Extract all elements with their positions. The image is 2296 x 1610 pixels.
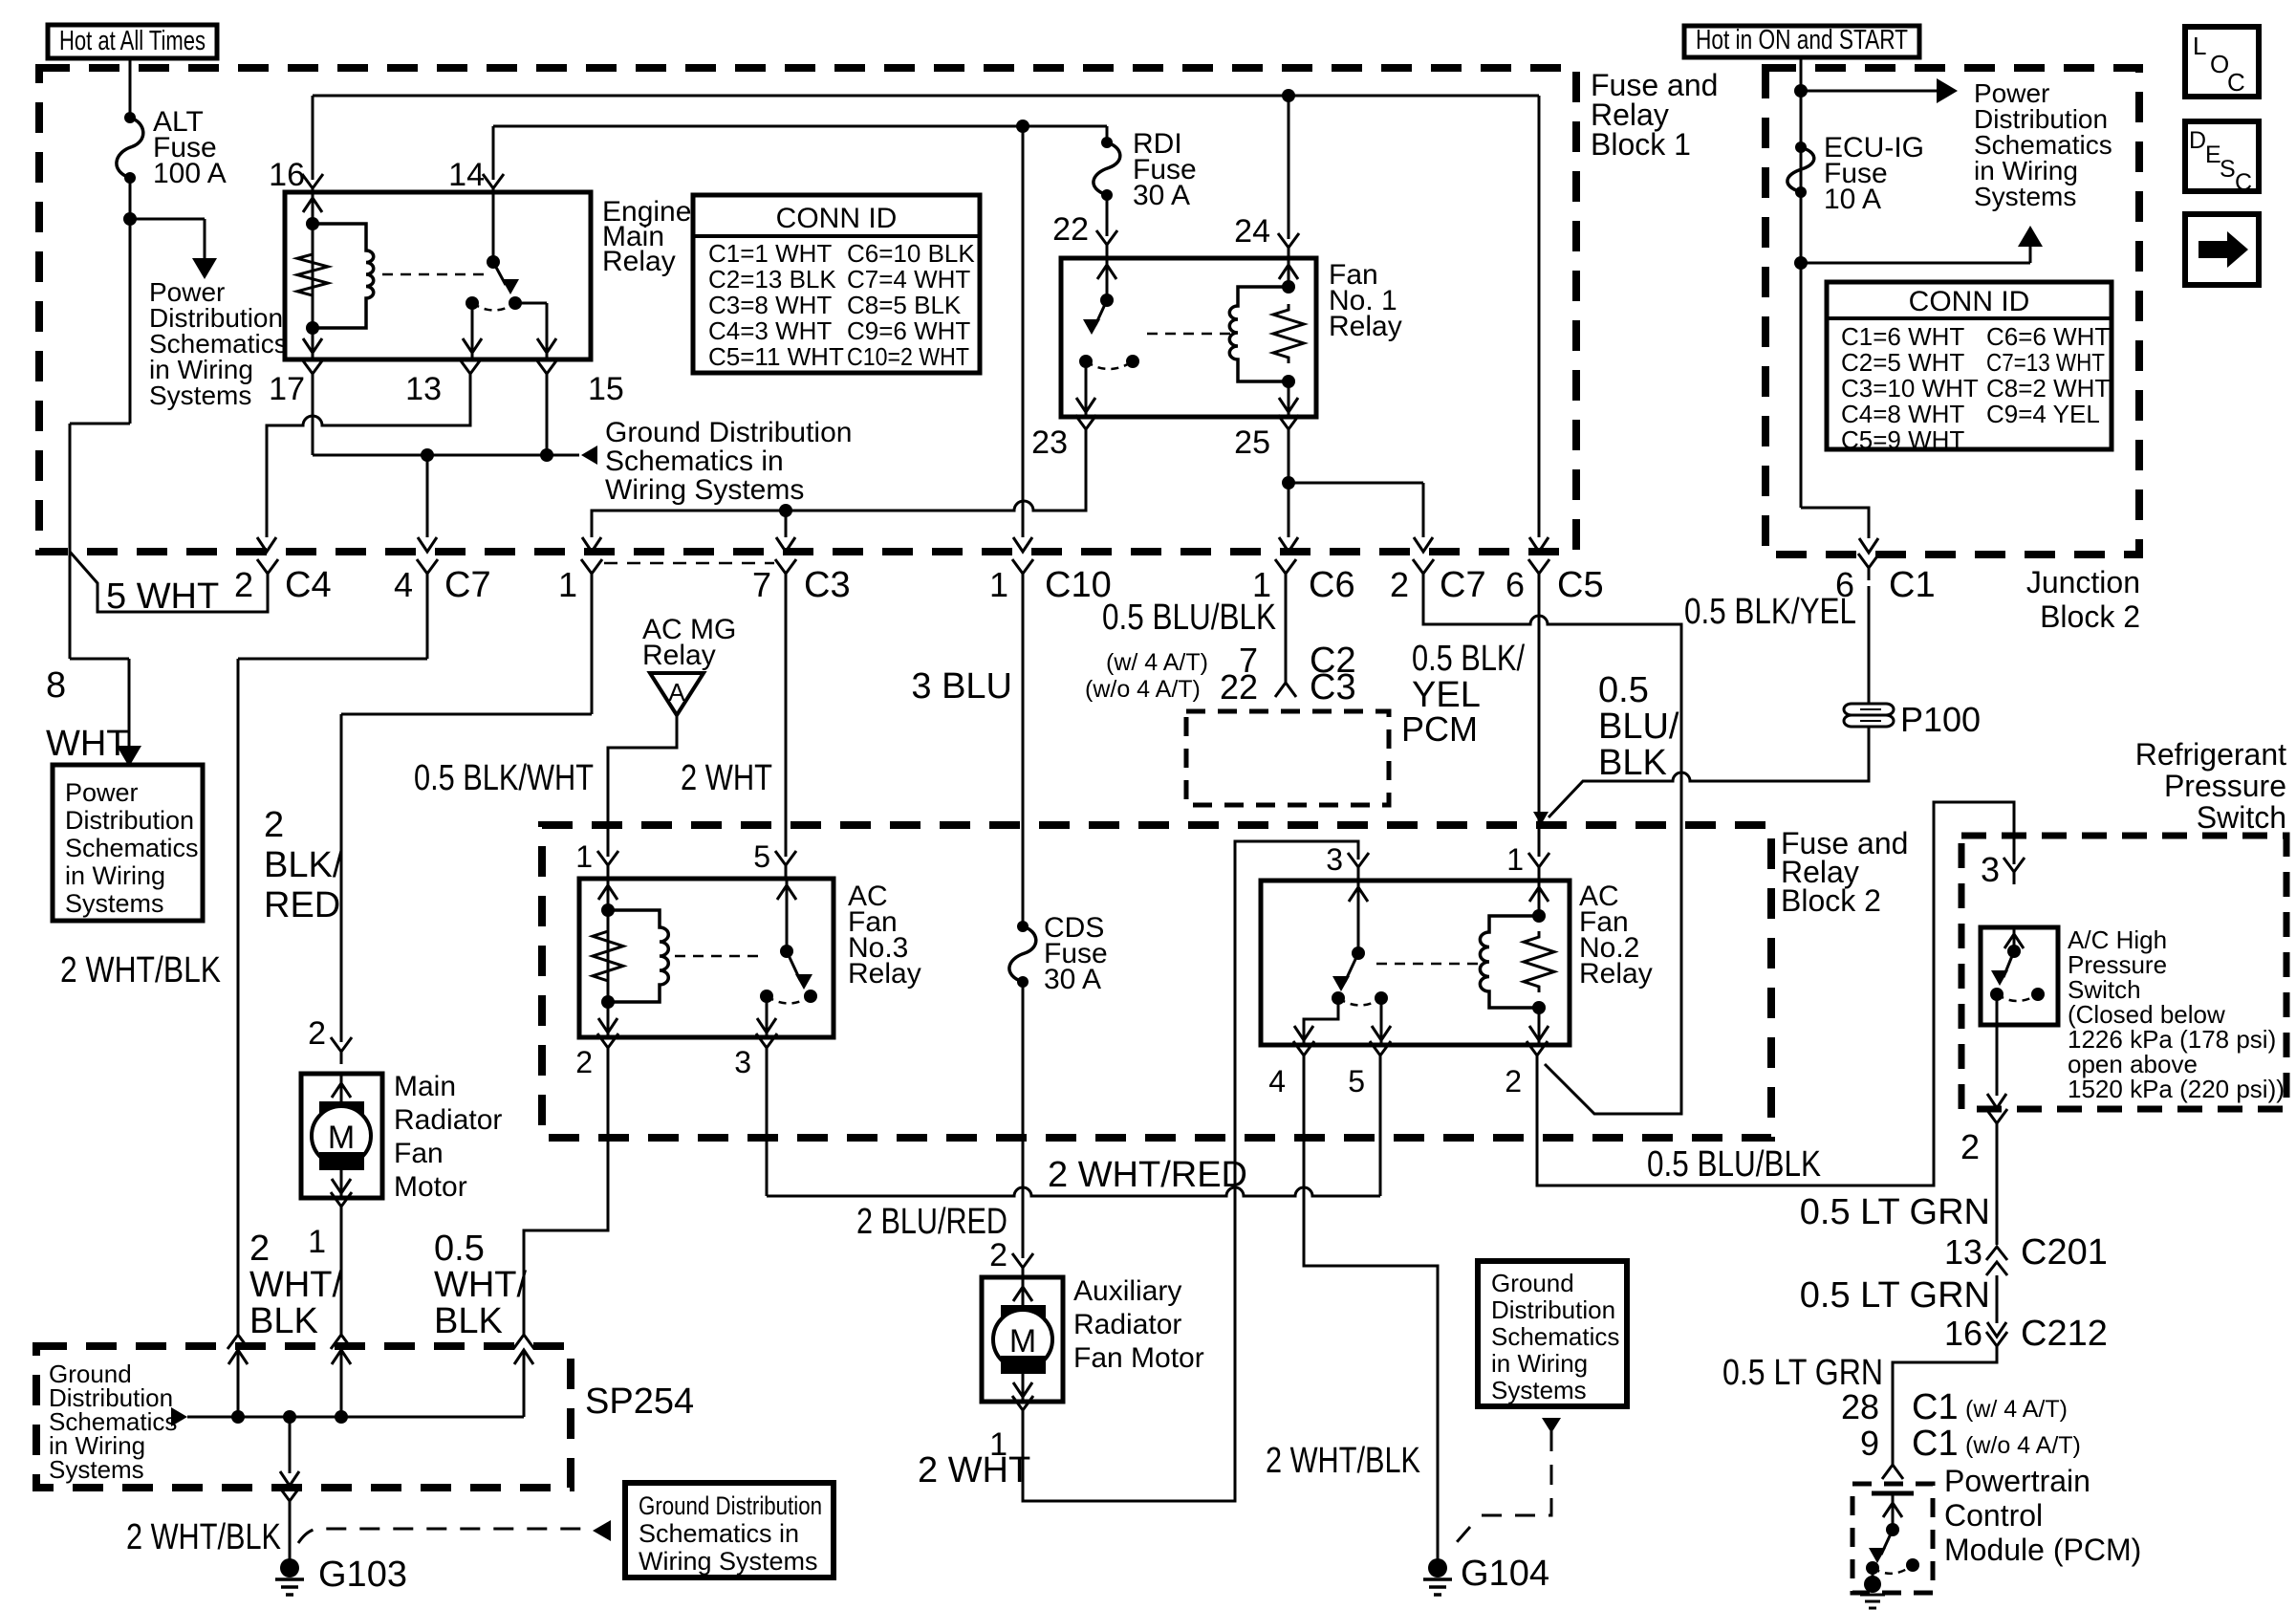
connector 1 C6 — [1275, 559, 1296, 586]
svg-text:P100: P100 — [1900, 700, 1981, 739]
box: PCM dashed (bottom right) — [1852, 1484, 1933, 1593]
fuse: ECU-IG Fuse 10 A — [1795, 141, 1807, 153]
svg-text:(w/ 4 A/T): (w/ 4 A/T) — [1965, 1396, 2068, 1423]
block: Refrigerant Pressure Switch dashed border — [1961, 836, 2286, 1109]
arrow: SP254 bus pointer — [171, 1407, 187, 1426]
svg-text:WHT: WHT — [46, 724, 129, 764]
connector fan2 pin 1 — [1528, 853, 1549, 880]
svg-text:C1: C1 — [1889, 565, 1936, 605]
svg-text:0.5: 0.5 — [1598, 670, 1649, 710]
connector 7 C3 — [775, 559, 796, 586]
svg-text:6: 6 — [1505, 565, 1525, 604]
svg-text:100 A: 100 A — [153, 158, 227, 189]
relay: Engine Main Relay box — [285, 192, 591, 359]
svg-text:RED: RED — [264, 885, 340, 925]
svg-text:1: 1 — [308, 1224, 326, 1260]
svg-text:Relay: Relay — [1329, 311, 1402, 342]
svg-text:C2=5 WHT: C2=5 WHT — [1841, 348, 1964, 377]
svg-text:CONN ID: CONN ID — [1909, 286, 2030, 317]
wire: branch to power distribution note — [130, 218, 205, 221]
svg-text:15: 15 — [588, 371, 624, 407]
connector fan2 pin 3 — [1348, 853, 1369, 880]
wire: pin 14 bus to RDI fuse — [493, 125, 1107, 128]
svg-text:2: 2 — [249, 1229, 270, 1269]
svg-text:BLU/: BLU/ — [1598, 707, 1679, 747]
svg-text:C201: C201 — [2021, 1232, 2108, 1273]
connector 4 C7 — [417, 559, 438, 586]
svg-text:2 WHT: 2 WHT — [681, 758, 772, 798]
motor: Main Radiator Fan Motor — [301, 1074, 382, 1198]
svg-text:Systems: Systems — [1491, 1376, 1587, 1404]
wire: C10 to CDS fuse — [1022, 586, 1025, 926]
wire: fan3 pin2 to SP254 — [524, 1060, 608, 1331]
connector pin 16 — [302, 174, 323, 201]
svg-text:Fan Motor: Fan Motor — [1073, 1342, 1204, 1374]
connector pin 23 — [1075, 415, 1096, 442]
wire: pressure switch pin3 feed — [2013, 802, 2016, 864]
svg-text:C5: C5 — [1557, 565, 1604, 605]
svg-text:28: 28 — [1841, 1387, 1879, 1426]
wire: battery feed from Hot at All Times — [129, 58, 132, 118]
svg-text:Wiring Systems: Wiring Systems — [605, 474, 804, 506]
node: fan1 coil bottom — [1282, 375, 1295, 388]
svg-text:M: M — [328, 1120, 355, 1156]
svg-text:2 WHT: 2 WHT — [918, 1450, 1030, 1490]
switch: PCM internal ground — [1872, 1491, 1914, 1496]
connector: G103 exit — [279, 1487, 300, 1513]
coil: engine relay winding — [313, 224, 374, 328]
svg-text:Main: Main — [394, 1071, 456, 1102]
connector: pressure pin 2 — [1986, 1109, 2007, 1136]
svg-text:C7=4 WHT: C7=4 WHT — [847, 265, 970, 294]
svg-text:13: 13 — [1944, 1232, 1982, 1272]
svg-text:2: 2 — [575, 1045, 593, 1079]
svg-text:G104: G104 — [1461, 1554, 1549, 1594]
svg-text:9: 9 — [1860, 1424, 1879, 1463]
wire: arrow to power distribution note (right) — [1801, 90, 1944, 93]
switch: engine relay contact — [492, 192, 495, 262]
wire: pressure to C201 — [1996, 1136, 1999, 1245]
connector pin 25 — [1278, 415, 1299, 442]
switch: fan3 relay contact — [786, 879, 789, 951]
wire: aux pin1 to fan2 pin3 (2 WHT) — [1023, 841, 1358, 1501]
svg-text:Relay: Relay — [1579, 958, 1653, 990]
wire: fan2 pin1 leg — [1538, 881, 1541, 916]
dashed wire: to ground distribution box — [298, 1529, 585, 1543]
svg-text:CONN ID: CONN ID — [776, 203, 898, 234]
svg-text:2: 2 — [264, 805, 284, 845]
wire: pin24 from bus — [1288, 96, 1290, 239]
svg-text:Block 1: Block 1 — [1591, 127, 1691, 162]
connector: PCM entry — [1882, 1452, 1903, 1479]
table: CONN ID (junction block 2) — [1827, 282, 2112, 449]
node: junction below fuse — [1794, 256, 1808, 270]
node: fan3 coil top — [601, 903, 615, 917]
node: junction power note — [1794, 84, 1808, 98]
wire: fan1 pin24 leg — [1288, 258, 1290, 287]
svg-text:22: 22 — [1220, 667, 1258, 707]
svg-text:C5=9 WHT: C5=9 WHT — [1841, 425, 1964, 454]
svg-text:Refrigerant: Refrigerant — [2135, 737, 2286, 772]
svg-text:BLK/: BLK/ — [264, 845, 343, 885]
dashed link: fan1 relay actuation — [1147, 333, 1233, 336]
svg-text:Hot in ON and START: Hot in ON and START — [1696, 25, 1908, 55]
svg-text:7: 7 — [752, 565, 771, 604]
svg-text:Ground Distribution: Ground Distribution — [605, 417, 852, 448]
connector 2 C4 — [257, 559, 278, 586]
svg-text:C2=13 BLK: C2=13 BLK — [708, 265, 836, 294]
box: Power Distribution Schematics in Wiring Systems — [53, 765, 203, 921]
connector pin 13 — [460, 359, 481, 386]
wire: P100 to C5 junction diagonal — [1549, 727, 1869, 817]
fuse: RDI Fuse 30 A — [1101, 137, 1113, 148]
node: junction at ALT branch — [123, 212, 137, 226]
icon: LOC box — [2185, 27, 2259, 97]
node: fan1 coil top — [1282, 280, 1295, 294]
svg-text:BLK: BLK — [1598, 743, 1667, 783]
svg-text:Switch: Switch — [2197, 800, 2286, 835]
svg-text:Fan: Fan — [394, 1138, 444, 1169]
wire: C1 stem to P100 — [1868, 586, 1871, 704]
svg-text:2 WHT/BLK: 2 WHT/BLK — [60, 950, 221, 990]
wire: pin 25 to C6 — [1288, 442, 1290, 537]
icon: DESC box — [2185, 121, 2259, 191]
wire: branch up arrow to note — [1801, 262, 2030, 265]
svg-text:Relay: Relay — [642, 640, 716, 671]
svg-text:1: 1 — [989, 565, 1008, 604]
svg-text:C1: C1 — [1912, 1387, 1959, 1427]
svg-text:Block 2: Block 2 — [1781, 883, 1881, 918]
svg-text:0.5 LT GRN: 0.5 LT GRN — [1800, 1275, 1990, 1316]
svg-text:5: 5 — [1348, 1064, 1365, 1099]
svg-text:Powertrain: Powertrain — [1944, 1464, 2090, 1498]
svg-text:Control: Control — [1944, 1498, 2043, 1533]
svg-text:Ground Distribution: Ground Distribution — [639, 1491, 822, 1520]
fuse: ALT Fuse 100 A — [124, 112, 136, 123]
connector fan3 pin 3 — [756, 1033, 777, 1060]
wire: hot in ON feed — [1800, 57, 1803, 508]
svg-text:Auxiliary: Auxiliary — [1073, 1275, 1181, 1307]
svg-text:0.5 BLK/YEL: 0.5 BLK/YEL — [1684, 592, 1856, 632]
svg-text:4: 4 — [1268, 1064, 1286, 1099]
svg-text:Pressure: Pressure — [2164, 769, 2286, 803]
svg-text:13: 13 — [405, 371, 442, 407]
connector main fan pin 1 — [331, 1192, 352, 1219]
svg-text:2: 2 — [308, 1015, 326, 1052]
wire: AC MG relay to fan3 relay pin1 — [608, 715, 677, 857]
wire: pressure pin 2 out — [1996, 1025, 1999, 1096]
connector 2 C7b — [1413, 559, 1434, 586]
svg-text:16: 16 — [1944, 1314, 1982, 1353]
svg-text:0.5: 0.5 — [434, 1229, 485, 1269]
resistor: engine relay internal — [297, 249, 328, 301]
svg-text:22: 22 — [1052, 211, 1089, 248]
connector pin 17 — [302, 359, 323, 386]
svg-text:Relay: Relay — [602, 246, 676, 277]
svg-text:1: 1 — [558, 565, 577, 604]
svg-text:C6=6 WHT: C6=6 WHT — [1986, 322, 2110, 351]
svg-text:C3=8 WHT: C3=8 WHT — [708, 291, 832, 319]
wire: 8 WHT drop to power distribution box — [69, 552, 72, 659]
svg-text:C5=11 WHT: C5=11 WHT — [708, 342, 844, 371]
relay: AC Fan No.3 Relay box — [579, 879, 834, 1037]
connector 6 C5 — [1528, 559, 1549, 586]
wire: branch to C7 pin2 — [1289, 482, 1423, 485]
svg-text:3: 3 — [734, 1045, 751, 1079]
svg-text:Distribution: Distribution — [1491, 1295, 1615, 1324]
svg-text:5: 5 — [753, 839, 770, 874]
connector: SP254 entry main fan — [331, 1322, 352, 1349]
switch: fan2 relay contact — [1357, 881, 1360, 953]
ground: G104 — [1437, 1549, 1440, 1560]
svg-text:Systems: Systems — [149, 381, 251, 410]
svg-text:A: A — [668, 678, 685, 707]
svg-text:PCM: PCM — [1401, 709, 1478, 749]
svg-text:C8=2 WHT: C8=2 WHT — [1986, 374, 2110, 402]
connector: pressure pin 3 — [2004, 858, 2025, 884]
svg-text:S: S — [2220, 156, 2236, 183]
svg-text:2: 2 — [1505, 1064, 1522, 1099]
connector 1 (block1) — [581, 559, 602, 586]
wire: ALT fuse down to junction — [129, 178, 132, 424]
ground: G103 — [289, 1549, 292, 1560]
svg-text:C8=5 BLK: C8=5 BLK — [847, 291, 962, 319]
svg-text:14: 14 — [448, 157, 485, 193]
node: bus to C3 pin 7 — [779, 504, 792, 517]
node: coil bottom — [306, 321, 319, 335]
wire: C6 stem to PCM — [1285, 586, 1288, 675]
svg-text:0.5 BLK/: 0.5 BLK/ — [1412, 639, 1525, 679]
wire: drop to C3 pin 7 — [785, 511, 788, 537]
node: ground bus to pin 15 — [540, 448, 553, 462]
wire: RDI to pin 22 — [1106, 195, 1109, 236]
wire: fan3 coil leg — [607, 879, 610, 1037]
svg-text:C7: C7 — [444, 565, 491, 605]
node: fan2 coil top — [1532, 909, 1546, 923]
coil: fan1 relay winding — [1229, 287, 1289, 381]
svg-text:(w/ 4 A/T): (w/ 4 A/T) — [1106, 649, 1208, 676]
wire: relay coil leg pin16-17 — [312, 192, 314, 359]
box: Ground Distribution Schematics in Wiring Systems (right) — [1478, 1261, 1627, 1406]
svg-text:G103: G103 — [318, 1555, 407, 1595]
wire: 5 WHT diagonal and label underline to C4 — [70, 552, 268, 612]
svg-text:C: C — [2227, 68, 2245, 97]
svg-text:Junction: Junction — [2026, 565, 2140, 599]
svg-text:30 A: 30 A — [1044, 964, 1101, 995]
svg-text:0.5 LT GRN: 0.5 LT GRN — [1800, 1192, 1990, 1232]
wire: jb2 drop to C1 — [1801, 508, 1869, 538]
switch: pressure contact — [2013, 927, 2016, 951]
svg-text:25: 25 — [1234, 424, 1270, 461]
svg-text:C3: C3 — [804, 565, 851, 605]
box: Ground Distribution Schematics in Wiring Systems (bottom) — [625, 1483, 834, 1577]
icon: forward arrow box — [2185, 214, 2259, 285]
wire: down to G103 — [289, 1513, 292, 1558]
block: SP254 splice dashed border — [36, 1346, 571, 1488]
wire: fan2 pin4 to G104 — [1304, 1068, 1438, 1556]
svg-text:Schematics: Schematics — [1491, 1322, 1619, 1351]
svg-text:(w/o 4 A/T): (w/o 4 A/T) — [1965, 1432, 2081, 1459]
svg-text:C3: C3 — [1310, 667, 1356, 707]
svg-text:C212: C212 — [2021, 1314, 2108, 1354]
fuse: CDS Fuse 30 A — [1017, 921, 1029, 932]
relay: Fan No.1 Relay box — [1061, 258, 1316, 417]
svg-text:C4=3 WHT: C4=3 WHT — [708, 316, 832, 345]
svg-text:C1=6 WHT: C1=6 WHT — [1841, 322, 1964, 351]
svg-text:Hot at All Times: Hot at All Times — [59, 26, 206, 56]
svg-text:2 BLU/RED: 2 BLU/RED — [856, 1202, 1007, 1242]
node: pin25 branch — [1282, 476, 1295, 490]
dashed link: fan3 relay actuation — [675, 955, 765, 958]
wire: SP254 ground bus — [187, 1416, 524, 1419]
motor: Auxiliary Radiator Fan Motor — [982, 1277, 1063, 1402]
svg-text:3: 3 — [1326, 842, 1343, 877]
symbol: AC MG Relay triangle — [650, 673, 704, 715]
svg-text:Wiring Systems: Wiring Systems — [639, 1547, 818, 1576]
svg-text:8: 8 — [46, 665, 66, 706]
svg-text:Schematics: Schematics — [65, 834, 199, 862]
svg-text:C7=13 WHT: C7=13 WHT — [1986, 348, 2105, 377]
wire: drop to C7 pin 4 — [426, 455, 429, 537]
wire: C7 pin2 0.5 BLK/YEL to fan2 pin2 — [1423, 586, 1681, 1114]
box: A/C High Pressure Switch — [1981, 927, 2058, 1025]
relay: AC Fan No.2 Relay box — [1261, 881, 1570, 1045]
svg-text:C10=2 WHT: C10=2 WHT — [847, 342, 969, 371]
svg-text:Ground: Ground — [1491, 1269, 1574, 1297]
connector: C2/C3 into PCM — [1275, 670, 1296, 697]
svg-text:1: 1 — [1506, 842, 1524, 877]
svg-text:in Wiring: in Wiring — [1491, 1349, 1588, 1378]
table: CONN ID (block 1) — [693, 195, 980, 373]
connector: C201 — [1986, 1247, 2007, 1275]
svg-text:2: 2 — [1390, 565, 1409, 604]
svg-text:2: 2 — [989, 1237, 1007, 1273]
wire: 2 BLK/RED pin1 to main fan — [591, 586, 594, 714]
wire: fan1 pin25 leg — [1288, 381, 1290, 417]
dashed link: fan2 relay actuation — [1376, 963, 1480, 966]
svg-text:3 BLU: 3 BLU — [911, 666, 1012, 707]
svg-text:5 WHT: 5 WHT — [106, 577, 219, 617]
dashed link: engine relay actuation — [382, 273, 488, 276]
svg-text:Motor: Motor — [394, 1171, 467, 1203]
connector fan2 pin 2 — [1527, 1041, 1548, 1068]
svg-text:M: M — [1009, 1323, 1036, 1360]
connector: SP254 entry 2WHT/BLK — [227, 1322, 249, 1349]
connector fan2 pin 4 — [1293, 1041, 1314, 1068]
wire: main bus from pin 16 to C5 drop — [313, 95, 1539, 98]
svg-text:BLK: BLK — [249, 1301, 318, 1341]
resistor: fan3 relay internal — [593, 925, 623, 987]
svg-text:Systems: Systems — [65, 889, 164, 918]
svg-text:2: 2 — [1960, 1127, 1980, 1166]
connector: P100 grommet — [1844, 704, 1894, 715]
svg-text:L: L — [2193, 32, 2206, 60]
svg-text:C4=8 WHT: C4=8 WHT — [1841, 400, 1964, 428]
connector: SP254 entry 0.5WHT/BLK — [513, 1322, 534, 1349]
svg-text:YEL: YEL — [1412, 675, 1481, 715]
svg-text:WHT/: WHT/ — [434, 1265, 528, 1305]
svg-text:6: 6 — [1835, 565, 1854, 604]
svg-text:WHT/: WHT/ — [249, 1265, 343, 1305]
wire: SP254 to G103 — [289, 1417, 292, 1473]
svg-text:C9=6 WHT: C9=6 WHT — [847, 316, 970, 345]
svg-text:D: D — [2189, 127, 2206, 154]
resistor: fan1 relay internal — [1273, 304, 1304, 363]
connector fan3 pin 2 — [597, 1033, 618, 1060]
svg-text:C6=10 BLK: C6=10 BLK — [847, 239, 975, 268]
svg-text:C9=4 YEL: C9=4 YEL — [1986, 400, 2100, 428]
svg-text:24: 24 — [1234, 213, 1270, 250]
connector pin 22 — [1096, 230, 1117, 257]
coil: fan3 relay winding — [608, 910, 668, 1002]
label box: Hot at All Times — [48, 25, 217, 58]
svg-text:C1=1 WHT: C1=1 WHT — [708, 239, 832, 268]
coil: fan2 relay winding — [1480, 916, 1539, 1008]
svg-text:Relay: Relay — [848, 958, 921, 990]
connector pin 24 — [1278, 233, 1299, 260]
svg-text:23: 23 — [1031, 424, 1068, 461]
svg-text:BLK: BLK — [434, 1301, 503, 1341]
dashed wire: ground distribution to G104 — [1480, 1431, 1551, 1515]
svg-text:C4: C4 — [285, 565, 332, 605]
svg-text:16: 16 — [269, 157, 305, 193]
wire: pin 13 to C4 — [267, 386, 470, 537]
wire: ALT feed jog to left border — [70, 423, 130, 425]
block: Fuse and Relay Block 2 dashed border — [542, 825, 1771, 1138]
connector fan2 pin 5 — [1370, 1041, 1391, 1068]
svg-text:Schematics in: Schematics in — [605, 446, 784, 477]
connector: C212 — [1987, 1322, 2006, 1337]
wire: C212 to PCM — [1893, 1359, 1997, 1453]
wire: fan2 pin2 leg — [1538, 1008, 1541, 1045]
svg-text:1: 1 — [575, 839, 593, 874]
dashed link: pin1 to pin7 internal — [604, 562, 774, 565]
wire: 2 WHT/BLK from C7 pin4 to SP254 — [426, 586, 429, 659]
connector pin 15 — [536, 359, 557, 386]
box: PCM dashed (center) — [1186, 711, 1389, 805]
wire: fan3 pin3 down (2 BLU/RED) — [766, 1060, 769, 1196]
node: ground bus to C7 pin 4 — [421, 448, 434, 462]
svg-text:C6: C6 — [1309, 565, 1355, 605]
resistor: fan2 relay internal — [1524, 931, 1554, 992]
svg-text:2 WHT/BLK: 2 WHT/BLK — [1266, 1441, 1420, 1481]
wire: fan2 pin2 to pressure switch (0.5 BLU/BLK) — [1537, 802, 2014, 1186]
wire: pin 15 stem — [546, 386, 549, 455]
connector pin 14 — [483, 174, 504, 201]
wire: pin 17 ground bus — [312, 386, 314, 455]
svg-text:10 A: 10 A — [1824, 184, 1881, 215]
node: bus dot 3 — [335, 1410, 348, 1424]
svg-text:2: 2 — [234, 565, 253, 604]
label box: Hot in ON and START — [1684, 26, 1919, 57]
svg-text:0.5 BLU/BLK: 0.5 BLU/BLK — [1102, 598, 1276, 638]
connector aux fan pin 1 — [1012, 1396, 1033, 1423]
wire: main fan pin1 to SP254 — [340, 1219, 343, 1331]
wire: pin 23 to pin1/C3 bus — [592, 442, 1086, 537]
connector main fan pin 2 — [331, 1037, 352, 1064]
svg-text:Schematics in: Schematics in — [639, 1519, 799, 1548]
node: bus dot 1 — [231, 1410, 245, 1424]
svg-text:2 WHT/RED: 2 WHT/RED — [1048, 1155, 1247, 1195]
wire: CDS fuse to aux motor — [1022, 982, 1025, 1258]
connector fan3 pin 1 — [597, 851, 618, 878]
svg-text:3: 3 — [1981, 850, 2000, 889]
svg-text:(w/o 4 A/T): (w/o 4 A/T) — [1085, 676, 1201, 703]
svg-text:0.5 BLU/BLK: 0.5 BLU/BLK — [1647, 1144, 1821, 1185]
wire: C10 feed drop (3 BLU upper) — [1022, 126, 1025, 537]
connector 6 C1 — [1858, 554, 1879, 580]
wire: C5 down to fan2 pin1 — [1538, 586, 1541, 857]
